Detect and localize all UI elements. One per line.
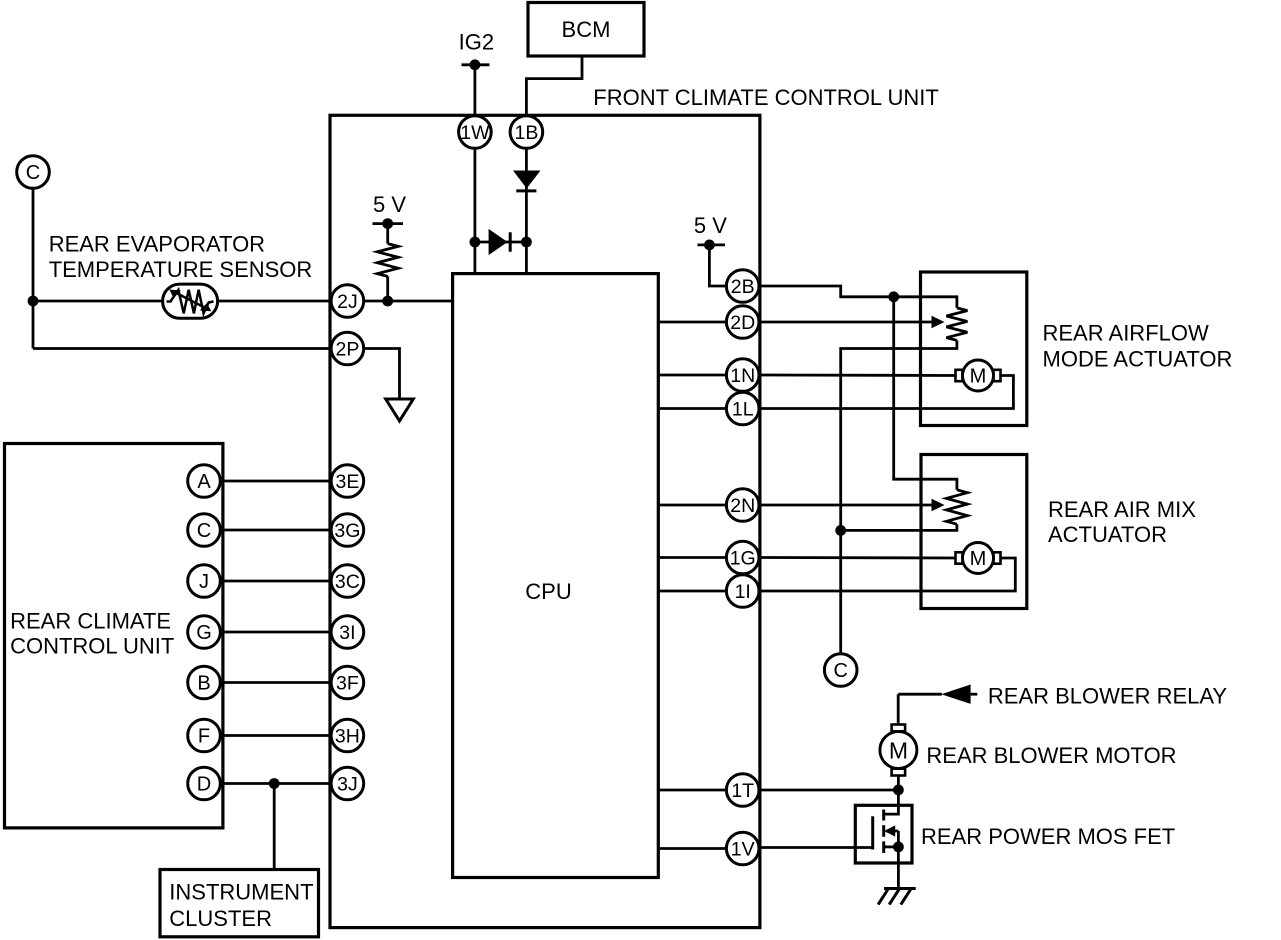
svg-text:1G: 1G xyxy=(730,548,756,570)
svg-text:1B: 1B xyxy=(514,122,538,144)
svg-text:REAR EVAPORATOR: REAR EVAPORATOR xyxy=(49,232,265,257)
svg-text:2P: 2P xyxy=(335,339,359,361)
svg-text:C: C xyxy=(833,660,847,682)
svg-text:2B: 2B xyxy=(731,276,755,298)
svg-text:C: C xyxy=(197,520,211,542)
svg-text:3J: 3J xyxy=(337,774,358,796)
svg-text:3I: 3I xyxy=(339,622,355,644)
svg-text:M: M xyxy=(970,548,987,570)
svg-text:REAR AIRFLOW: REAR AIRFLOW xyxy=(1043,320,1209,345)
svg-text:3E: 3E xyxy=(335,471,359,493)
svg-text:1T: 1T xyxy=(731,780,754,802)
svg-text:D: D xyxy=(197,774,211,796)
svg-text:5 V: 5 V xyxy=(694,213,727,238)
svg-text:M: M xyxy=(970,366,987,388)
svg-text:J: J xyxy=(199,571,209,593)
svg-text:3G: 3G xyxy=(334,520,360,542)
svg-text:IG2: IG2 xyxy=(459,29,494,54)
svg-text:F: F xyxy=(198,726,210,748)
svg-text:CONTROL UNIT: CONTROL UNIT xyxy=(10,634,174,659)
svg-text:1L: 1L xyxy=(732,399,754,421)
svg-text:TEMPERATURE SENSOR: TEMPERATURE SENSOR xyxy=(49,257,313,282)
svg-text:1N: 1N xyxy=(730,365,755,387)
svg-text:MODE ACTUATOR: MODE ACTUATOR xyxy=(1043,346,1233,371)
svg-text:REAR AIR MIX: REAR AIR MIX xyxy=(1048,497,1196,522)
svg-text:5 V: 5 V xyxy=(373,192,406,217)
svg-text:1I: 1I xyxy=(735,581,751,603)
svg-text:REAR POWER MOS FET: REAR POWER MOS FET xyxy=(921,824,1175,849)
svg-text:3H: 3H xyxy=(335,726,360,748)
svg-text:3F: 3F xyxy=(336,673,359,695)
svg-text:2D: 2D xyxy=(730,312,755,334)
svg-text:B: B xyxy=(197,673,210,695)
svg-text:3C: 3C xyxy=(335,571,360,593)
svg-text:2N: 2N xyxy=(730,495,755,517)
svg-text:REAR CLIMATE: REAR CLIMATE xyxy=(10,609,171,634)
svg-text:INSTRUMENT: INSTRUMENT xyxy=(169,879,313,904)
svg-text:BCM: BCM xyxy=(562,17,611,42)
svg-text:1W: 1W xyxy=(460,122,490,144)
svg-text:G: G xyxy=(196,622,212,644)
svg-text:M: M xyxy=(889,737,908,763)
svg-text:REAR BLOWER MOTOR: REAR BLOWER MOTOR xyxy=(926,743,1176,768)
svg-text:ACTUATOR: ACTUATOR xyxy=(1048,522,1167,547)
svg-text:C: C xyxy=(26,162,40,184)
svg-text:CLUSTER: CLUSTER xyxy=(169,906,272,931)
svg-text:CPU: CPU xyxy=(525,579,571,604)
svg-text:REAR BLOWER RELAY: REAR BLOWER RELAY xyxy=(988,684,1228,709)
svg-text:1V: 1V xyxy=(731,839,755,861)
svg-text:2J: 2J xyxy=(337,291,358,313)
svg-text:A: A xyxy=(197,471,211,493)
svg-text:FRONT CLIMATE CONTROL UNIT: FRONT CLIMATE CONTROL UNIT xyxy=(593,85,939,110)
